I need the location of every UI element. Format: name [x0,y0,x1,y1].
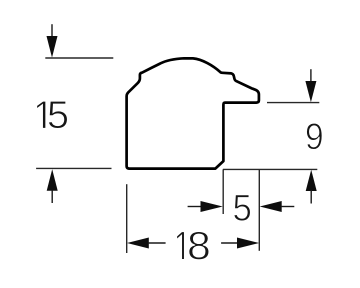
dim 5 left arrow (points right) [188,206,202,208]
moulding profile outline [127,58,259,168]
dim 5 left extension line [222,169,224,214]
dim 15 top extension line [45,57,113,59]
dim 5 label [234,195,251,221]
dim 15 bottom arrow [47,169,58,191]
dim 9 bottom extension line [223,168,317,170]
dim 9 top arrow [310,69,312,82]
dim 18 left arrow (points left) [127,238,149,249]
dim 18 left extension line [126,184,128,253]
dim 9 bottom arrow [306,170,317,191]
dim 18 label [177,232,185,260]
dim 9 label [307,123,323,149]
dim 9 top extension line [267,102,319,104]
dim 15 top arrow [51,24,53,37]
dim 15 label [37,101,46,128]
dim 5 right arrow (points left) [260,201,282,212]
dim 5 right extension line [258,169,260,250]
dim 15 bottom extension line [36,167,111,169]
dim 18 right arrow (points right) [221,242,237,244]
